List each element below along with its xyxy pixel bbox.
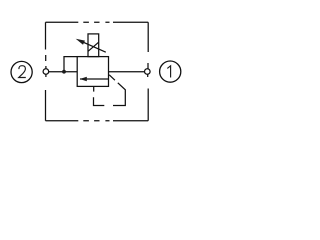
flow path arrow (points left) [80, 78, 109, 80]
pilot line stub below valve [93, 87, 95, 92]
node label circle 2 [11, 61, 32, 82]
cartridge envelope top edge [46, 21, 149, 23]
valve body U1 main square [77, 57, 108, 87]
pilot line lower-left dash [94, 97, 105, 105]
pilot line diagonal dash [109, 75, 115, 80]
node label text 2 [19, 66, 26, 78]
node label text 1 [167, 66, 170, 78]
cartridge envelope left edge [45, 22, 47, 120]
cartridge envelope right edge [147, 22, 150, 120]
cartridge envelope bottom edge [46, 120, 149, 122]
node label circle 1 [160, 61, 181, 82]
pilot line lower-right dash [113, 83, 125, 106]
wire: main line valve to port1 [109, 71, 145, 73]
port 1 circle (on right boundary) [145, 69, 151, 75]
port 2 circle (on left boundary) [43, 69, 49, 75]
flow arrowhead (filled, points left) [80, 77, 87, 81]
adjustment arrow shaft [82, 41, 106, 52]
spring cross stroke [88, 42, 99, 51]
adjustment arrowhead (filled, points up-left) [76, 39, 85, 45]
spring box [88, 34, 99, 57]
pilot stage box (upper-left step) [64, 57, 77, 72]
junction node dot [62, 70, 66, 74]
wire: main line port2 to valve [49, 71, 77, 73]
